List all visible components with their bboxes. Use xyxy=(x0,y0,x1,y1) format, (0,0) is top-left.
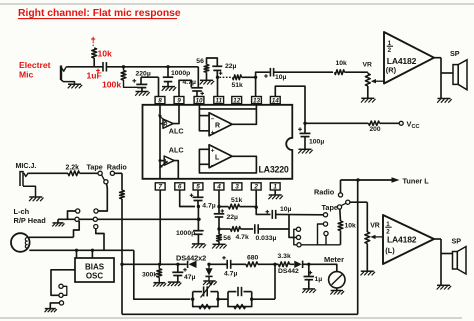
wire 10k to VR xyxy=(345,71,368,73)
wire micjack to 2.2k xyxy=(28,172,68,174)
wire to 1000p bottom xyxy=(197,219,199,230)
wire pin5 to 4.7u xyxy=(197,190,199,197)
resistor R 10k mid xyxy=(338,221,343,231)
op-amp U LA4182 (L) xyxy=(383,215,434,264)
contact tape play xyxy=(337,205,341,209)
resistor R 100k xyxy=(123,67,125,71)
svg-text:4: 4 xyxy=(216,184,221,191)
wire 220u to ground xyxy=(141,88,143,92)
wire contact to ground xyxy=(50,303,59,308)
svg-text:L: L xyxy=(215,155,220,162)
BIAS OSC box xyxy=(75,258,114,282)
ground head bus xyxy=(52,223,64,227)
supply dashes above 10k xyxy=(92,42,94,48)
ground pin1 xyxy=(268,195,283,199)
node tuner L xyxy=(356,178,359,181)
svg-text:47µ: 47µ xyxy=(184,274,196,281)
terminal Vcc xyxy=(399,121,403,125)
pin box 12 xyxy=(232,97,242,105)
ground 1u xyxy=(302,289,316,293)
internal node ALC L input xyxy=(159,159,162,162)
svg-text:51k: 51k xyxy=(231,197,243,204)
electret mic jack ground lead xyxy=(61,80,75,84)
arrow tuner L xyxy=(392,177,400,183)
pin box 6 xyxy=(175,183,185,191)
svg-text:ALC: ALC xyxy=(169,145,184,154)
node head bus end xyxy=(197,218,200,221)
bracket Q to 10k bottom xyxy=(318,224,341,245)
wire 47u to ground xyxy=(177,276,179,282)
ground 220u xyxy=(135,92,150,96)
node diode down xyxy=(207,263,210,266)
svg-text:8: 8 xyxy=(158,97,162,104)
pin box 14 xyxy=(270,97,280,105)
wire RC2 to riser xyxy=(252,298,275,300)
wire to 1000p xyxy=(167,67,169,77)
wire output down to ground xyxy=(440,58,442,98)
svg-text:4.7µ: 4.7µ xyxy=(224,270,237,277)
ground electret mic xyxy=(68,84,83,88)
wire head bottom xyxy=(29,249,134,251)
contact B2 xyxy=(93,217,97,221)
wire A1 to bus xyxy=(68,211,76,219)
svg-text:4.7µ: 4.7µ xyxy=(183,79,196,86)
wire to meter xyxy=(309,264,337,271)
node pin2 xyxy=(255,206,258,209)
svg-text:LA4182: LA4182 xyxy=(387,234,417,244)
node pin4 xyxy=(217,205,220,208)
ground VR bottom xyxy=(361,271,376,275)
electret mic jack sleeve xyxy=(60,66,62,81)
pin box 11 xyxy=(214,97,224,105)
svg-text:12: 12 xyxy=(233,97,241,104)
wire loop down 1 xyxy=(121,173,123,190)
scan artifact line top xyxy=(0,3,474,5)
svg-text:0.033µ: 0.033µ xyxy=(256,235,277,242)
contact switch arm left xyxy=(104,180,108,184)
pin box 8 xyxy=(155,97,165,105)
ground speaker bottom xyxy=(437,285,452,289)
node 100k top xyxy=(122,65,125,68)
svg-text:56: 56 xyxy=(223,235,231,242)
wire 200 to Vcc terminal xyxy=(380,122,400,124)
title underline xyxy=(18,18,177,20)
wire P3 to bracket xyxy=(301,244,317,246)
svg-text:680: 680 xyxy=(247,255,259,262)
svg-text:14: 14 xyxy=(272,97,280,104)
svg-text:Meter: Meter xyxy=(324,255,344,264)
contact P3 xyxy=(297,243,301,247)
wire long loop left vertical xyxy=(121,199,123,314)
wire node to bus xyxy=(197,207,199,220)
wire 220u top link xyxy=(141,76,159,78)
amp triangle R internal xyxy=(209,113,232,136)
capacitor C 4.7u pin10 xyxy=(191,88,203,91)
ground 56 bottom xyxy=(212,244,227,248)
node pin5/6 xyxy=(197,205,200,208)
capacitor C 10u top xyxy=(270,68,273,77)
wire to pin 8 xyxy=(158,77,160,96)
speaker SP right channel xyxy=(453,60,467,90)
resistor R radio series xyxy=(120,190,125,199)
capacitor C 22u bottom xyxy=(214,214,225,217)
wire stub to speaker xyxy=(441,72,453,74)
resistor R 300k xyxy=(157,269,162,278)
bracket P left xyxy=(294,229,297,245)
wire long loop right vertical xyxy=(357,180,359,314)
wire 1000p to ground xyxy=(167,82,169,87)
wire Vcc rail xyxy=(305,122,369,124)
potentiometer VR bottom xyxy=(365,232,370,244)
svg-text:Right channel: Flat mic respon: Right channel: Flat mic response xyxy=(18,8,181,19)
ALC block L xyxy=(164,156,174,165)
svg-text:Tuner L: Tuner L xyxy=(403,176,430,185)
contact Q2 xyxy=(323,222,327,226)
wire VR-L to ground xyxy=(366,244,368,271)
svg-text:10k: 10k xyxy=(345,222,357,229)
wire 100u to ground xyxy=(304,137,306,149)
svg-text:Tape: Tape xyxy=(322,203,339,212)
svg-text:3.3k: 3.3k xyxy=(278,253,291,260)
plus 1u xyxy=(309,271,313,275)
bracket bias contacts xyxy=(63,286,67,295)
plus supply mark xyxy=(91,37,95,41)
svg-text:+: + xyxy=(211,148,215,155)
capacitor RC2 xyxy=(237,287,239,296)
wire node to pin 13 xyxy=(255,77,257,96)
contact B3 xyxy=(94,225,98,229)
wire RC1 to RC2 xyxy=(218,298,228,300)
pin box 3 xyxy=(232,183,242,191)
plus 4.7u pin5 xyxy=(190,194,194,198)
resistor R 680 xyxy=(246,262,258,267)
svg-text:220µ: 220µ xyxy=(136,71,151,78)
pin box 4 xyxy=(214,183,224,191)
wire 10u to tape contact xyxy=(276,213,324,215)
ground 100u xyxy=(298,149,313,153)
wire amp R output xyxy=(434,57,441,59)
wire down to VR-L xyxy=(366,202,368,232)
wire node to pin 11 xyxy=(217,77,219,96)
node feedback riser xyxy=(273,263,276,266)
wire to 56 xyxy=(218,229,220,234)
svg-text:22µ: 22µ xyxy=(225,63,237,70)
plus 22u bottom xyxy=(221,209,225,213)
svg-text:LA3220: LA3220 xyxy=(259,165,289,175)
internal wire pin8 to ALC inputs xyxy=(159,105,161,161)
wire 1u to ground xyxy=(308,280,310,289)
VR bottom wiper arrow xyxy=(375,236,383,238)
bracket B to head bottom xyxy=(96,229,104,251)
capacitor C 4.7u pin5 xyxy=(193,197,204,200)
ground VR top xyxy=(361,98,376,102)
wire bias to switch xyxy=(51,270,75,296)
ground stub head bus xyxy=(57,219,59,222)
contact P1 xyxy=(296,227,300,231)
pin box 5 xyxy=(193,183,203,191)
capacitor C 1u xyxy=(304,277,315,280)
contact Q1 xyxy=(323,213,327,217)
svg-text:DS442x2: DS442x2 xyxy=(176,253,206,262)
wire 22u to node xyxy=(216,71,218,78)
svg-text:SP: SP xyxy=(452,237,462,246)
wire 0.033u to riser xyxy=(258,228,289,230)
svg-text:1uF: 1uF xyxy=(87,71,102,81)
svg-text:4.7µ: 4.7µ xyxy=(202,203,215,210)
node 56/4.7k xyxy=(217,227,220,230)
pin box 1 xyxy=(270,183,280,191)
contact radio record xyxy=(110,171,114,175)
bracket A to head top xyxy=(74,221,80,237)
capacitor C 1000p top xyxy=(163,77,174,81)
ground 300k xyxy=(153,283,166,287)
contact Q3 xyxy=(324,231,328,235)
svg-text:10k: 10k xyxy=(336,60,348,67)
potentiometer VR top xyxy=(365,74,370,87)
resistor RC2 xyxy=(234,305,246,309)
wire 100k to 220u bottom xyxy=(124,80,138,87)
resistor R 10k mic bias xyxy=(92,48,97,58)
svg-text:2.2k: 2.2k xyxy=(66,164,80,171)
wire pin2 to 10u xyxy=(256,207,270,214)
ground bias switch xyxy=(45,309,57,313)
node bias 1 xyxy=(75,249,78,252)
wire diode to ground xyxy=(208,276,210,280)
pin box 10 xyxy=(194,97,204,105)
wire head top xyxy=(29,236,74,238)
VR top wiper arrow xyxy=(376,80,385,82)
wire pin1 to ground xyxy=(274,190,276,195)
wire pin14 to Vcc node xyxy=(275,86,305,123)
wire to VR top xyxy=(367,72,369,73)
node Vcc rail xyxy=(303,122,306,125)
head coil xyxy=(25,238,27,249)
svg-text:9: 9 xyxy=(177,97,181,104)
svg-text:(L): (L) xyxy=(385,246,395,255)
svg-text:+: + xyxy=(211,130,215,137)
svg-text:L-ch: L-ch xyxy=(14,207,30,216)
resistor R 4.7k xyxy=(231,227,241,232)
trimmer capacitor RC1 xyxy=(203,286,205,296)
svg-text:11: 11 xyxy=(215,97,222,104)
svg-text:3: 3 xyxy=(235,184,239,191)
svg-text:–: – xyxy=(211,115,215,122)
switch arm diagonal right xyxy=(341,203,346,206)
wire 51k to pin13 node xyxy=(242,76,256,78)
internal wire to pin7 edge xyxy=(159,161,161,179)
RC network 2 loop xyxy=(228,291,236,293)
node RC1 left xyxy=(191,298,194,301)
wire 680 to node xyxy=(258,263,275,265)
capacitor C 10u bottom xyxy=(272,210,275,219)
wire to 680 xyxy=(231,263,246,265)
resistor R 2.2k xyxy=(68,171,80,176)
node pin11 xyxy=(216,76,219,79)
ground 56 top xyxy=(200,80,215,84)
IC U LA3220 body xyxy=(143,105,293,179)
svg-text:100k: 100k xyxy=(102,79,121,89)
svg-text:1µ: 1µ xyxy=(315,276,323,283)
wire 56 to ground xyxy=(206,72,208,80)
contact bias upper xyxy=(59,284,63,288)
capacitor C 220u xyxy=(136,84,147,87)
capacitor C 4.7u series xyxy=(227,260,231,269)
wire arm to B1 contact xyxy=(98,184,107,211)
wire to 1u xyxy=(308,264,310,276)
wire corner down to 4.7u xyxy=(197,67,199,88)
pin box 13 xyxy=(252,97,262,105)
svg-text:R: R xyxy=(164,122,168,128)
mic jack sleeve xyxy=(20,172,23,186)
capacitor C 1000p bottom xyxy=(193,231,204,235)
wire 10u to 10k xyxy=(274,71,333,73)
svg-text:6: 6 xyxy=(178,184,182,191)
svg-text:7: 7 xyxy=(158,184,162,191)
wire amp L output xyxy=(434,238,441,240)
fraction bar R xyxy=(387,45,393,47)
contact radio play xyxy=(338,193,342,197)
svg-text:L: L xyxy=(165,159,169,165)
wire up to 10u xyxy=(256,72,270,77)
wire head bus y219 xyxy=(58,218,199,220)
diode D DS442 right xyxy=(294,261,302,268)
mic jack tip contact xyxy=(24,173,29,177)
tape head L-ch xyxy=(11,233,30,252)
wire to bias box right xyxy=(91,250,93,258)
wire 1uF to 4.7u corner xyxy=(106,66,198,68)
pin box 2 xyxy=(251,183,261,191)
contact B1 xyxy=(94,209,98,213)
resistor R 200 xyxy=(369,121,380,125)
svg-text:10: 10 xyxy=(195,97,203,104)
ground diode down xyxy=(203,281,217,285)
wire output down to ground L xyxy=(440,239,442,285)
node RC2 right xyxy=(250,298,253,301)
resistor R 10k volume top xyxy=(335,70,345,75)
internal feedback loop R xyxy=(199,109,256,131)
plus 22u top xyxy=(219,71,223,75)
svg-text:2: 2 xyxy=(388,47,392,54)
wire stub to speaker L xyxy=(441,253,453,255)
svg-text:BIAS: BIAS xyxy=(85,262,105,271)
speaker SP left channel xyxy=(453,247,467,275)
diode D DS442 left xyxy=(189,261,197,268)
wire 56/22u loop xyxy=(207,58,218,66)
RC network 1 loop xyxy=(193,291,202,293)
node pin7/300k xyxy=(158,263,161,266)
wire drop to 220u xyxy=(140,77,142,84)
svg-text:R/P Head: R/P Head xyxy=(14,216,47,225)
internal wire ALC L out to pin6 xyxy=(174,161,178,179)
wire 1000p to ground xyxy=(197,235,199,244)
svg-text:VR: VR xyxy=(363,61,373,68)
svg-text:10k: 10k xyxy=(98,49,113,59)
wire riser to RC row xyxy=(274,264,276,299)
svg-text:1000p: 1000p xyxy=(171,70,190,77)
svg-text:(R): (R) xyxy=(386,65,397,74)
wire tape contact to 10k xyxy=(339,209,342,221)
wire pin7 down to DS row xyxy=(159,190,161,264)
wire node to 100u xyxy=(304,123,306,133)
ground 1000p bottom xyxy=(192,244,207,248)
capacitor C 47u xyxy=(172,272,183,275)
capacitor C 1uF xyxy=(103,62,106,72)
contact bias ground side xyxy=(59,301,63,305)
node bias 2 xyxy=(91,249,94,252)
wire pin2 down xyxy=(255,190,257,207)
capacitor C 22u top xyxy=(212,66,222,70)
scan artifact line bottom xyxy=(0,317,462,319)
svg-text:300k: 300k xyxy=(142,271,157,278)
wire node to 51k xyxy=(219,206,229,208)
pin box 7 xyxy=(155,183,165,191)
ALC block R xyxy=(163,119,173,128)
plus 100u xyxy=(298,127,302,131)
wire long loop bottom xyxy=(122,313,358,315)
wire DS row left xyxy=(122,263,187,265)
capacitor C 100u xyxy=(300,133,311,136)
ground mic jack xyxy=(29,197,44,201)
switch arm diagonal left xyxy=(102,175,105,180)
svg-text:200: 200 xyxy=(370,126,381,133)
plus 10u bottom xyxy=(266,210,270,214)
fraction bar L xyxy=(385,226,391,228)
contact A2 xyxy=(75,217,79,221)
svg-text:R: R xyxy=(215,123,220,130)
wire 4.7u to node xyxy=(197,201,199,207)
node 47u xyxy=(176,263,179,266)
svg-text:OSC: OSC xyxy=(86,271,104,280)
svg-text:10µ: 10µ xyxy=(280,206,292,213)
svg-text:1: 1 xyxy=(273,184,277,191)
pin box 9 xyxy=(174,97,184,105)
capacitor C 0.033u xyxy=(255,224,258,234)
svg-text:1000p: 1000p xyxy=(176,230,195,237)
wire tuner L xyxy=(341,179,392,181)
wire 4.7u to pin 10 xyxy=(196,91,198,96)
resistor R 51k bottom xyxy=(229,204,240,209)
plus 220u xyxy=(132,79,136,83)
contact P2 xyxy=(296,235,300,239)
internal feedback loop L xyxy=(199,149,256,173)
node DS row loop xyxy=(120,263,123,266)
wire node to 4.7k xyxy=(219,228,231,230)
wire arm to VR-L xyxy=(350,201,367,203)
svg-text:VR: VR xyxy=(370,222,380,229)
ground meter xyxy=(330,291,344,295)
wire radio contact to loop xyxy=(115,172,123,174)
svg-text:Radio: Radio xyxy=(107,163,128,172)
stub Q3 down xyxy=(325,236,327,245)
plus 47u xyxy=(183,268,187,272)
svg-text:SP: SP xyxy=(450,49,460,58)
wire mic to 1uF xyxy=(66,66,103,68)
wire 51k to pin2 node xyxy=(240,206,256,208)
internal wire ALC R out to pin9 xyxy=(173,105,179,124)
svg-text:2: 2 xyxy=(253,184,258,191)
contact arm right xyxy=(346,200,350,204)
svg-text:Radio: Radio xyxy=(314,188,335,197)
meter M xyxy=(329,272,345,288)
wire loop to RC networks xyxy=(134,250,191,299)
contact tape record xyxy=(98,171,102,175)
svg-text:LA4182: LA4182 xyxy=(387,56,417,66)
svg-text:10µ: 10µ xyxy=(275,74,287,81)
wire to 47u xyxy=(177,264,179,272)
resistor RC1 xyxy=(199,305,211,309)
resistor R 56 top xyxy=(204,65,209,73)
wire pin9 loop to 4.7u xyxy=(179,80,191,96)
